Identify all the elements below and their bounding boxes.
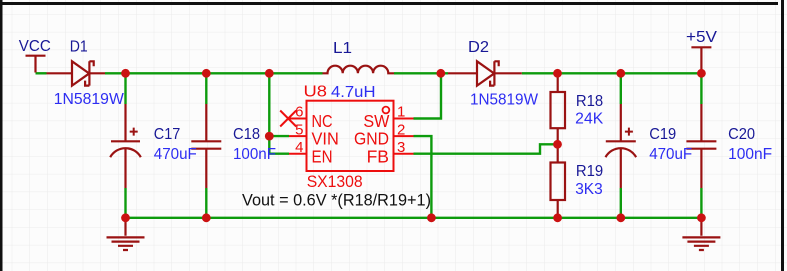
svg-text:SX1308: SX1308 — [307, 172, 363, 191]
pin 2 lead — [394, 135, 414, 137]
sheet border left — [0, 0, 3, 271]
svg-text:6: 6 — [295, 104, 303, 121]
inductor L1 — [323, 66, 395, 74]
ground right — [682, 218, 720, 250]
wire top rail seg2 — [105, 72, 323, 74]
svg-text:3K3: 3K3 — [575, 181, 603, 198]
wire C17 bottom — [124, 188, 126, 218]
svg-text:470uF: 470uF — [649, 146, 692, 163]
blue value texts — [54, 84, 772, 198]
diode D2 — [448, 61, 522, 85]
capacitor C19 — [606, 104, 637, 188]
C17 plus sign — [130, 128, 138, 136]
pin 5 lead — [289, 135, 307, 137]
svg-text:4: 4 — [295, 139, 303, 156]
svg-text:3: 3 — [397, 139, 405, 156]
+5V power symbol — [691, 47, 711, 71]
wire C17 top — [124, 73, 126, 104]
VCC power symbol — [26, 56, 46, 73]
svg-text:L1: L1 — [333, 40, 352, 57]
capacitor C20 — [686, 104, 716, 188]
capacitor C17 — [110, 104, 141, 188]
wire VIN drop — [269, 73, 289, 136]
IC red texts — [295, 84, 405, 191]
svg-text:5: 5 — [295, 121, 303, 138]
C19 plus sign — [625, 128, 633, 136]
wire C20 bottom — [700, 188, 702, 218]
pin 3 lead — [394, 153, 414, 155]
svg-text:100nF: 100nF — [728, 146, 772, 163]
svg-text:C19: C19 — [649, 126, 676, 143]
svg-text:1N5819W: 1N5819W — [54, 91, 124, 108]
op-amp U8 IC body — [280, 101, 413, 171]
pin 1 lead — [394, 118, 414, 120]
svg-text:24K: 24K — [575, 111, 604, 128]
svg-text:100nF: 100nF — [233, 146, 276, 163]
svg-text:EN: EN — [312, 146, 333, 166]
svg-text:C18: C18 — [233, 126, 260, 143]
svg-text:1: 1 — [397, 104, 405, 121]
wire FB to divider — [414, 144, 558, 153]
navy designator texts — [19, 29, 755, 180]
wire C18 bottom — [205, 188, 207, 218]
svg-text:VCC: VCC — [19, 38, 51, 55]
wire C19 top — [620, 73, 622, 104]
capacitor C18 — [191, 104, 221, 188]
ground left — [107, 218, 145, 250]
wire EN branch — [269, 136, 289, 154]
diode D1 — [47, 61, 106, 85]
svg-text:R19: R19 — [576, 163, 603, 180]
svg-text:Vout = 0.6V *(R18/R19+1): Vout = 0.6V *(R18/R19+1) — [242, 192, 431, 210]
svg-text:470uF: 470uF — [154, 146, 197, 163]
svg-text:+5V: +5V — [686, 29, 718, 46]
svg-text:U8: U8 — [304, 84, 328, 101]
resistor R19 — [557, 144, 559, 162]
sheet border top — [0, 2, 778, 5]
wire bottom bus — [126, 217, 702, 219]
resistor R18 — [557, 76, 559, 93]
no-connect X on pin 6 — [280, 111, 296, 127]
svg-text:R18: R18 — [576, 93, 603, 110]
wire top rail seg4 — [522, 72, 702, 74]
svg-text:1N5819W: 1N5819W — [470, 92, 538, 109]
wire C20 top — [700, 73, 702, 104]
SW inversion circle — [383, 107, 390, 114]
svg-text:4.7uH: 4.7uH — [331, 84, 376, 101]
wire top rail seg1 — [36, 72, 47, 74]
svg-text:D2: D2 — [468, 39, 489, 56]
wire C18 top — [205, 73, 207, 104]
wire C19 bottom — [620, 188, 622, 218]
wire GND to bus — [414, 136, 432, 218]
svg-text:D1: D1 — [70, 39, 88, 56]
svg-text:FB: FB — [367, 146, 389, 166]
wire top rail seg3 — [394, 72, 448, 74]
sheet border right — [781, 0, 784, 271]
pin 4 lead — [289, 153, 307, 155]
wire SW to rail — [414, 73, 442, 118]
svg-text:2: 2 — [397, 121, 405, 138]
pin 6 lead — [289, 118, 307, 120]
svg-text:C20: C20 — [728, 126, 755, 143]
svg-text:C17: C17 — [154, 126, 181, 143]
